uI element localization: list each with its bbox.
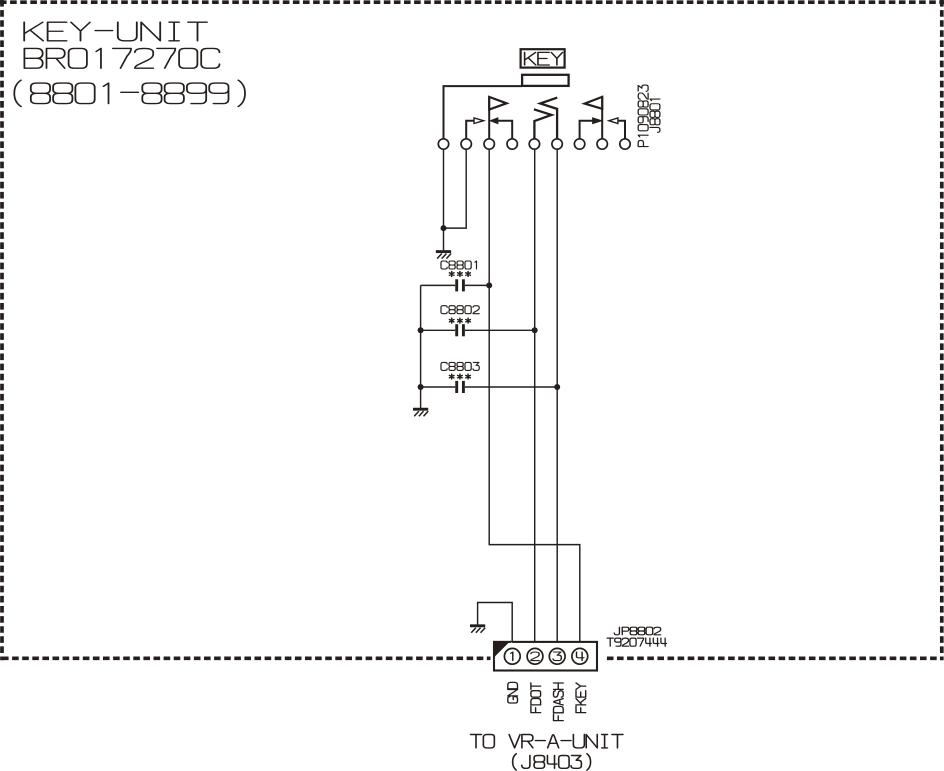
connector J8801 pin 8: [597, 139, 607, 149]
capacitor C8802: [421, 329, 456, 331]
junction C8802 / pin5 line: [532, 327, 538, 333]
connector JP8802 pin-1 notch: [494, 642, 510, 658]
wire: pin 6 down to JP8802 pin 3 (FDASH): [556, 149, 558, 648]
capacitor C8801: [421, 284, 456, 286]
text (J8403): [513, 754, 591, 770]
JP8802 pin 1: [504, 648, 520, 664]
switch stub pin 9 with open arrow: [618, 121, 625, 139]
value C8801 ***: [449, 272, 470, 277]
ground (pins 1/2): [436, 252, 451, 259]
connector J8801 pin 7: [574, 139, 584, 149]
capacitor C8803: [421, 386, 456, 388]
junction C8802 / ground bus: [418, 327, 424, 333]
ground (JP8802 pin1 GND): [470, 626, 485, 633]
key switch body: [522, 75, 569, 86]
ground (capacitor bus): [413, 409, 428, 416]
label box KEY: [521, 49, 565, 67]
junction pins 1+2: [441, 225, 447, 231]
wire: pin 1 down to ground junction: [443, 149, 445, 250]
pin label FDOT: [531, 683, 541, 713]
connector J8801 pin 5: [529, 139, 539, 149]
switch stub pin 4 with filled arrow: [498, 121, 512, 139]
switch stub pin 2 with open arrow: [466, 121, 474, 139]
value C8802 ***: [449, 318, 470, 323]
junction C8801 / pin3 line: [486, 282, 492, 288]
switch lever pin 3 with flag: [488, 97, 490, 139]
label C8803: [441, 362, 479, 370]
label J8801: [650, 99, 660, 132]
pin label FDASH: [554, 683, 564, 721]
wire: pin 3 down to JP8802 pin 4 (FKEY): [489, 149, 580, 648]
title line 2: BR017270C: [24, 48, 219, 68]
title line 3: (8801-8899): [14, 80, 245, 106]
junction C8803 / pin6 line: [554, 384, 560, 390]
wire: key body to pin 1 of J8801: [444, 86, 522, 139]
label P1090823: [638, 85, 648, 147]
wire: pin 5 down to JP8802 pin 2 (FDOT): [534, 149, 536, 648]
value C8803 ***: [449, 374, 470, 379]
title line 1: KEY-UNIT: [24, 22, 207, 41]
connector JP8802 body: [494, 642, 597, 671]
text TO VR-A-UNIT: [471, 735, 623, 748]
label text KEY: [525, 52, 563, 65]
JP8802 pin 4: [572, 648, 588, 664]
connector J8801 pin 9: [620, 139, 630, 149]
wire: JP8802 pin 1 to ground: [478, 603, 513, 649]
connector J8801 pin 6: [552, 139, 562, 149]
key contact pin 6 (angled arm): [540, 98, 557, 139]
label C8802: [441, 306, 479, 314]
junction C8803 / ground bus: [418, 384, 424, 390]
pin label GND: [508, 682, 518, 703]
wire: pin 2 down and left to junction: [444, 149, 467, 228]
label C8801: [441, 261, 476, 269]
JP8802 pin 3: [549, 648, 565, 664]
connector J8801 pin 1: [438, 139, 448, 149]
JP8802 pin 2: [527, 648, 543, 664]
connector J8801 pin 3: [484, 139, 494, 149]
pin label FKEY: [576, 683, 586, 713]
connector J8801 pin 2: [461, 139, 471, 149]
label T9207444: [607, 638, 666, 646]
switch lever pin 8 with flag: [601, 97, 603, 139]
left ground bus wire: [420, 285, 422, 408]
key contact pin 5 (angled arm): [534, 109, 552, 139]
switch stub pin 7 with filled arrow: [580, 121, 593, 139]
label JP8802: [614, 627, 660, 635]
connector J8801 pin 4: [507, 139, 517, 149]
